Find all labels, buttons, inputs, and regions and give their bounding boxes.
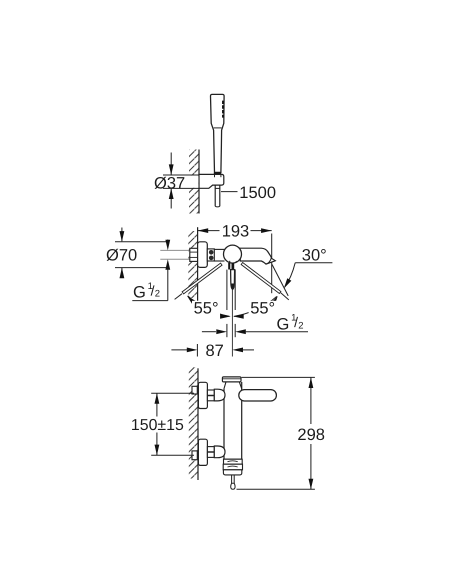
spout outlet tip <box>266 258 275 264</box>
leader G1/2 (upper) <box>167 240 169 247</box>
label 55° right <box>249 301 277 315</box>
svg-text:87: 87 <box>206 342 224 360</box>
hand shower body <box>210 94 224 172</box>
top union: escutcheon <box>198 382 207 408</box>
top cap of body <box>222 377 241 382</box>
dim 87 <box>171 349 187 351</box>
outlet cup <box>223 470 241 475</box>
wall line (middle) <box>197 227 199 301</box>
white mask behind Ø37 label <box>153 176 199 188</box>
svg-text:150±15: 150±15 <box>131 417 184 434</box>
inlet pipe (grey) <box>160 249 190 251</box>
bottom union: escutcheon <box>198 439 207 465</box>
dim Ø70 extension lines <box>115 241 168 243</box>
svg-text:1500: 1500 <box>239 184 276 202</box>
bottom rings of body <box>224 458 242 460</box>
top union: ball <box>214 389 225 401</box>
shower head seam line <box>214 127 222 129</box>
dim Ø70 vertical line + arrows <box>121 228 123 242</box>
label 55° left <box>192 301 220 315</box>
svg-text:193: 193 <box>222 222 250 240</box>
leader 1500 <box>221 191 238 193</box>
wall holder <box>199 174 224 188</box>
wall line (bottom) <box>197 368 199 480</box>
inlet hex nut <box>190 248 198 261</box>
bottom union: ball <box>214 446 225 458</box>
dim 193 line <box>198 230 220 232</box>
dim 150±15 extension lines <box>151 392 194 394</box>
connector piece <box>207 249 214 261</box>
wall hatch (top) <box>189 150 199 214</box>
spray face dashes <box>222 101 224 118</box>
holder inner lines <box>214 174 216 177</box>
swing arc right + arrows <box>234 296 277 316</box>
hose nut (dark) <box>214 172 221 176</box>
svg-text:30°: 30° <box>302 246 327 264</box>
hinge pivot dots <box>229 261 230 262</box>
dim 193 right extension line (spout tip / 30 deg reference) <box>271 234 273 294</box>
top union: nut <box>207 390 214 401</box>
spout <box>240 248 275 264</box>
lever (pointing down, tapering) <box>231 270 235 290</box>
30° reference line (spout axis) <box>272 264 288 296</box>
lever swung left (55°) <box>182 263 222 294</box>
dim Ø37 extension lines <box>163 174 199 176</box>
svg-text:G: G <box>277 315 290 333</box>
concealed connection square (top) <box>192 386 197 394</box>
lever swung right (55°) <box>241 263 281 294</box>
svg-text:G: G <box>133 284 146 302</box>
dim Ø37 vertical line + arrows <box>170 153 172 175</box>
svg-text:2: 2 <box>298 320 303 331</box>
bottom union: nut <box>207 447 214 458</box>
outlet stub + drop <box>231 475 233 483</box>
centerline below lever <box>231 290 233 357</box>
svg-text:55°: 55° <box>194 299 219 317</box>
wall hatch (bottom) <box>189 367 198 479</box>
dim 298 extension lines <box>242 376 315 378</box>
leader G1/2 (lower) with arrows at outlet tube <box>202 331 216 333</box>
concealed connection square (bottom) <box>192 451 197 460</box>
lever bar (pill) <box>239 390 277 401</box>
neck cone <box>224 382 242 389</box>
body circle (cartridge dome) <box>224 245 242 263</box>
dim 150±15 vertical + arrows <box>156 393 158 416</box>
wall line (top) <box>198 150 200 214</box>
svg-text:2: 2 <box>155 289 160 300</box>
wall hatch (middle) <box>188 231 197 298</box>
dim 298 vertical + arrows <box>310 377 312 424</box>
leader 30° <box>295 262 332 264</box>
svg-text:55°: 55° <box>250 299 275 317</box>
body (vertical cylinder) <box>223 389 225 460</box>
svg-text:298: 298 <box>297 426 325 444</box>
lever hinge (dark) <box>228 263 230 270</box>
outlet tube below body <box>226 270 228 310</box>
escutcheon (middle) <box>198 242 208 268</box>
swing arc left + arrows <box>188 296 230 317</box>
svg-text:Ø37: Ø37 <box>154 174 185 192</box>
hose <box>214 185 216 206</box>
svg-text:Ø70: Ø70 <box>106 247 137 265</box>
